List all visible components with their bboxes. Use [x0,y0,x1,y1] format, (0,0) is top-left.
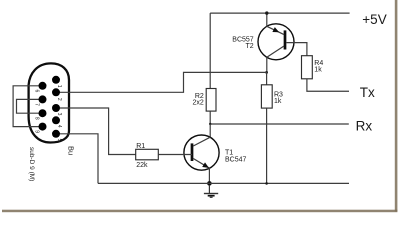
wire ground rail [98,182,349,184]
T1 base bar [191,143,194,161]
wire T1 emitter to ground rail [208,168,210,183]
svg-text:+5V: +5V [362,12,386,27]
wire T2 collector down [266,57,268,72]
resistor R1 [136,149,159,160]
svg-text:sub-D 9 (M): sub-D 9 (M) [28,147,35,181]
T1 emitter arrow [202,162,209,168]
svg-text:T1: T1 [225,149,233,156]
svg-text:Tx: Tx [360,85,375,100]
resistor R2 [206,89,216,112]
junction R3 / ground rail [265,182,268,185]
svg-text:Rx: Rx [356,119,373,134]
ground [204,185,218,197]
pin 9 [39,123,47,131]
wire T2 base to R4 [286,43,307,56]
resistor R4 [302,56,313,79]
pin 3 [52,104,60,112]
svg-text:4: 4 [56,125,62,128]
svg-text:5: 5 [56,139,62,142]
pin 2 [52,88,60,96]
wire R3 bottom to ground rail [266,108,268,183]
pin 4 [52,116,60,124]
pin 1 [52,76,60,84]
T2 emitter diagonal [267,26,284,34]
wire pin5 to ground rail [56,134,98,184]
pin 8 [39,109,47,117]
wire +5V rail to R2 [209,13,211,88]
T2 base bar [284,30,287,49]
T1 collector diagonal [193,137,210,146]
pin 6 [39,82,47,90]
svg-text:2x2: 2x2 [193,99,204,106]
page edge bottom (decorative) [2,210,397,213]
svg-text:6: 6 [34,90,40,93]
svg-text:Bu: Bu [66,146,75,155]
svg-text:R1: R1 [136,143,145,150]
wire loop pin7-pin8 [17,99,43,113]
wire R1 to T1 base [158,154,192,156]
junction T1 emitter / ground rail [207,181,212,186]
page edge right (decorative) [395,0,398,212]
wire T2 emitter to +5V rail [266,13,268,26]
T1 emitter diagonal [193,159,209,169]
wire R2 bottom to Rx node [209,111,211,124]
resistor R3 [261,85,272,108]
junction R2/T1-collector/Rx [209,123,211,125]
wire R4 bottom to Tx line [307,79,349,91]
connector Bu sub-D 9 (M) outline [29,63,69,142]
pin 7 [39,95,47,103]
wire T1 collector vertical [209,124,211,137]
wire junction to R3 top [266,72,268,84]
svg-text:3: 3 [56,113,62,116]
wire pin3 to R1 [56,108,136,155]
transistor T1 [184,135,219,170]
junction T2 collector / pin2 wire / R3 [265,71,268,74]
svg-text:2: 2 [56,98,62,101]
T2 collector diagonal [267,46,284,57]
svg-text:7: 7 [34,103,40,106]
svg-text:T2: T2 [246,43,254,50]
svg-text:BC547: BC547 [225,156,247,163]
svg-text:22k: 22k [136,162,148,169]
svg-text:1: 1 [56,85,62,88]
svg-text:8: 8 [34,117,40,120]
wire Rx line [210,123,349,125]
wire pin2 to T2 collector node (jog) [56,72,267,92]
wire +5V top rail [210,12,349,14]
pin 5 [52,130,60,138]
svg-text:9: 9 [34,130,40,133]
wire loop pin6-pin9 [13,86,42,127]
svg-text:1k: 1k [274,98,282,105]
svg-text:1k: 1k [314,66,322,73]
junction T2 emitter / +5V rail [265,11,268,14]
T2 emitter arrow (PNP) [272,27,279,32]
transistor T2 [258,24,294,60]
